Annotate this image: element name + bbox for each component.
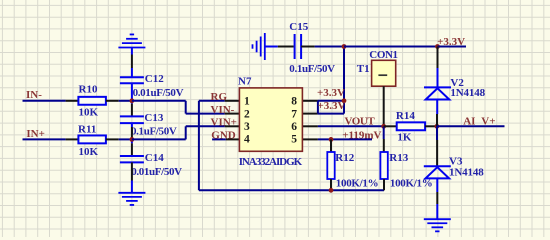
svg-text:3: 3: [244, 121, 250, 133]
svg-text:CON1: CON1: [369, 49, 397, 61]
resistor R10: [78, 97, 106, 105]
wire C15 to rail: [301, 46, 315, 48]
capacitor C12: [120, 76, 144, 78]
junction node1: [130, 98, 135, 103]
wire V2 to AI node: [436, 100, 438, 115]
svg-text:C13: C13: [144, 112, 163, 124]
ground (left of C15): [264, 33, 266, 60]
svg-text:N7: N7: [238, 76, 252, 88]
wire C14 to ground: [131, 162, 133, 180]
svg-text:R10: R10: [79, 84, 98, 96]
svg-text:V+: V+: [481, 115, 495, 127]
wire VOUT to R14: [384, 125, 397, 127]
wire gnd to C15: [265, 46, 278, 48]
wire GND stub: [212, 138, 226, 140]
pin 4: [226, 138, 240, 140]
svg-text:10K: 10K: [79, 107, 99, 119]
ground (bottom-left): [118, 192, 145, 194]
diode V3 1N4148: [424, 165, 451, 167]
wire pin6 to VOUT: [318, 125, 384, 127]
wire pin8 to +3.3V: [318, 100, 344, 102]
svg-text:6: 6: [291, 121, 297, 133]
junction node2: [130, 137, 135, 142]
pin 1: [225, 100, 240, 102]
wire R11 to node2: [106, 138, 119, 140]
pin 2: [225, 113, 240, 115]
svg-text:0.01uF/50V: 0.01uF/50V: [131, 166, 182, 178]
wire pin7 to +3.3V: [318, 113, 344, 115]
svg-text:0.01uF/50V: 0.01uF/50V: [133, 87, 184, 99]
pin 8: [302, 100, 318, 102]
ground (top-left power port): [118, 47, 145, 49]
svg-text:R14: R14: [396, 110, 415, 122]
svg-text:VOUT: VOUT: [345, 115, 376, 127]
resistor R12: [330, 139, 332, 152]
svg-text:4: 4: [244, 134, 250, 146]
pin 6: [302, 125, 318, 127]
power port +3.3V (top right): [438, 46, 467, 48]
capacitor C13: [120, 115, 144, 117]
resistor R14: [397, 122, 425, 130]
svg-text:8: 8: [291, 96, 297, 108]
diode V2 1N4148: [424, 86, 451, 88]
svg-text:INA332AIDGK: INA332AIDGK: [239, 156, 303, 168]
wire bottom feedback rail: [199, 189, 384, 191]
wire AI node to V3: [436, 126, 438, 140]
junction R12 top: [329, 137, 334, 142]
svg-text:1: 1: [244, 96, 250, 108]
wire +3.3V to V2: [437, 47, 439, 69]
junction rail/+3.3V vertical: [342, 44, 347, 49]
svg-text:R11: R11: [78, 124, 96, 136]
wire R14 to AI node: [425, 125, 437, 127]
svg-text:AI: AI: [463, 115, 475, 127]
pin 5: [302, 138, 318, 140]
svg-text:1N4148: 1N4148: [449, 167, 484, 179]
wire node1 to VIN- jog: [132, 100, 186, 102]
wire rail: [344, 46, 438, 48]
pin 3: [225, 125, 240, 127]
svg-text:R12: R12: [335, 152, 354, 164]
wire C12 to node1: [131, 83, 133, 101]
svg-text:+3.3V: +3.3V: [318, 100, 346, 112]
wire V3 to ground: [436, 178, 438, 192]
svg-text:IN-: IN-: [26, 89, 42, 101]
wire pin5 to R12: [318, 138, 372, 140]
wire RG net vertical: [198, 101, 200, 191]
junction R12 bottom: [329, 188, 334, 193]
svg-text:IN+: IN+: [26, 128, 45, 140]
wire gnd to C12: [131, 48, 133, 55]
svg-text:10K: 10K: [79, 146, 99, 158]
svg-text:5: 5: [291, 134, 297, 146]
svg-text:C14: C14: [145, 152, 164, 164]
svg-text:C12: C12: [145, 73, 164, 85]
svg-text:0.1uF/50V: 0.1uF/50V: [289, 63, 335, 75]
svg-text:+3.3V: +3.3V: [317, 87, 345, 99]
wire IN- to R10: [23, 100, 66, 102]
resistor R13: [383, 126, 385, 139]
wire R10 to node1: [106, 100, 119, 102]
wire C13 to node2: [131, 123, 133, 127]
svg-text:T1: T1: [357, 63, 370, 75]
svg-text:1K: 1K: [397, 132, 412, 144]
svg-text:2: 2: [244, 108, 250, 120]
junction pin8/+3.3V: [342, 98, 347, 103]
wire node2 to VIN+ jog: [132, 138, 186, 140]
wire +3.3V vertical from rail: [343, 47, 345, 114]
wire AI V+: [437, 125, 505, 127]
svg-text:C15: C15: [289, 21, 308, 33]
junction VOUT: [381, 124, 386, 129]
svg-text:0.1uF/50V: 0.1uF/50V: [131, 125, 177, 137]
junction rail end: [435, 44, 440, 49]
wire node2 to C14: [131, 139, 133, 143]
connector T1 CON1: [372, 60, 396, 86]
wire IN+ to R11: [23, 138, 66, 140]
capacitor C15: [294, 34, 296, 59]
capacitor C14: [120, 155, 144, 157]
svg-text:100K/1%: 100K/1%: [336, 178, 379, 190]
pin 7: [302, 113, 318, 115]
svg-text:+3.3V: +3.3V: [437, 36, 465, 48]
svg-text:R13: R13: [389, 152, 408, 164]
wire T1 pin down to VOUT node: [383, 86, 385, 126]
svg-text:1N4148: 1N4148: [450, 87, 485, 99]
junction AI node: [435, 124, 440, 129]
op-amp N7 INA332AIDGK body: [239, 88, 302, 151]
ground (bottom-right): [424, 218, 451, 220]
svg-text:7: 7: [291, 108, 297, 120]
svg-text:V3: V3: [449, 155, 463, 167]
resistor R11: [78, 135, 106, 143]
wire power-loop left side: [317, 101, 319, 114]
wire node1 to C13: [131, 101, 133, 104]
